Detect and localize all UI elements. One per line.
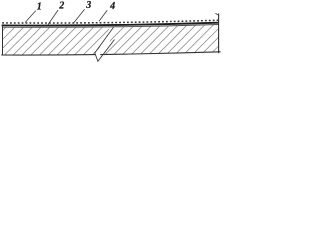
thin layer line / top of slab xyxy=(2,25,218,28)
leader line for label 3 xyxy=(74,9,85,23)
break line (zigzag) xyxy=(95,27,115,61)
svg-text:4: 4 xyxy=(109,1,115,12)
svg-text:1: 1 xyxy=(37,1,42,12)
bottom edge of slab, left of break xyxy=(1,54,96,56)
leader line for label 4 xyxy=(99,10,107,21)
tick at top of right edge xyxy=(215,13,218,15)
right vertical edge xyxy=(218,14,220,54)
svg-text:3: 3 xyxy=(85,0,91,11)
left vertical edge xyxy=(2,24,4,55)
leader line for label 1 xyxy=(25,11,36,23)
svg-text:2: 2 xyxy=(58,1,64,12)
dark membrane layer line xyxy=(2,23,219,26)
hatching of slab section, right of break xyxy=(77,24,284,56)
bottom edge of slab, right of break xyxy=(100,52,220,55)
top stippled layer (dotted row) xyxy=(2,20,218,23)
hatching of slab section, left of break xyxy=(0,24,176,56)
leader line for label 2 xyxy=(48,10,58,24)
